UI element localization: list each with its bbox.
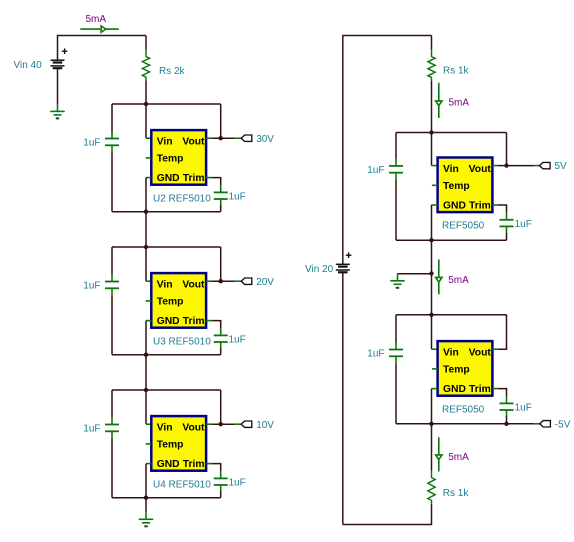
- wire U2 Trim to trim cap: [212, 178, 221, 186]
- capacitor 1uF input of U2: [105, 139, 119, 146]
- wire Rs 1k to stage A top: [431, 81, 433, 133]
- svg-text:1uF: 1uF: [83, 281, 100, 292]
- pin stub Vout of U4: [206, 423, 212, 425]
- junction U3 stage bottom: [144, 353, 148, 357]
- svg-text:Vin: Vin: [157, 280, 173, 291]
- ground mid (Vin20 return): [390, 274, 404, 288]
- output flag 5V: [540, 162, 551, 168]
- wire stage A bottom to stage B top: [431, 240, 433, 315]
- svg-text:Trim: Trim: [469, 200, 491, 211]
- wire REF5050b GND to stage bottom: [431, 389, 433, 424]
- capacitor 1uF input of REF5050b: [389, 350, 403, 357]
- wire U4 stage top (Vin node): [112, 389, 221, 391]
- svg-text:Vin: Vin: [443, 164, 459, 175]
- wire REF5050a Vout to corner: [498, 165, 507, 167]
- svg-text:GND: GND: [157, 173, 180, 184]
- input cap lead upper REF5050a: [395, 159, 397, 166]
- trim cap lead upper U3: [220, 328, 222, 335]
- capacitor lead upper C U2: [111, 132, 113, 139]
- pin stub GND of REF5050b: [432, 388, 438, 390]
- junction U2 stage top: [144, 102, 148, 106]
- wire rail to Rs 1k top: [431, 36, 433, 50]
- pin stub Vin of U2: [146, 137, 151, 139]
- wire REF5050b stage top: [396, 314, 507, 316]
- svg-text:Temp: Temp: [443, 181, 470, 192]
- svg-text:20V: 20V: [256, 277, 274, 288]
- trim cap lead lower REF5050b: [506, 410, 508, 416]
- svg-text:GND: GND: [443, 200, 466, 211]
- trim cap lead lower U2: [220, 199, 222, 205]
- capacitor 1uF trim of REF5050b: [500, 403, 514, 410]
- flag lead 20V: [234, 280, 241, 282]
- svg-text:Trim: Trim: [183, 173, 205, 184]
- trim cap lead upper U2: [220, 185, 222, 192]
- svg-text:1uF: 1uF: [367, 349, 384, 360]
- wire REF5050a stage bottom: [396, 239, 507, 241]
- wire U4 trim cap to stage bottom: [220, 491, 222, 498]
- IC REF5050a: [438, 158, 493, 213]
- pin stub Temp of REF5050b: [432, 368, 438, 370]
- wire REF5050b bottom to flag: [507, 423, 534, 425]
- polarity plus of Vin 40: [62, 48, 68, 54]
- svg-text:REF5050: REF5050: [442, 404, 485, 415]
- svg-text:1uF: 1uF: [83, 138, 100, 149]
- flag lead 30V: [234, 137, 241, 139]
- svg-text:Rs 2k: Rs 2k: [159, 66, 186, 77]
- wire REF5050a Trim to trim cap: [498, 205, 507, 213]
- wire U2 stage top (Vin node): [112, 103, 221, 105]
- pin stub Vin of REF5050b: [432, 348, 438, 350]
- wire REF5050a Vout to flag: [507, 165, 534, 167]
- svg-text:Vin 20: Vin 20: [305, 264, 334, 275]
- pin stub Temp of REF5050a: [432, 184, 438, 186]
- wire rail to Rs 2k: [145, 36, 147, 50]
- wire U3 main vertical to Vin pin: [145, 247, 147, 281]
- svg-text:1uF: 1uF: [229, 477, 246, 488]
- wire mid ground tap: [397, 273, 431, 275]
- current arrow 5mA (top left): [80, 26, 119, 32]
- junction REF5050a Vout node: [504, 163, 508, 167]
- wire U3 input-cap branch lower: [111, 295, 113, 354]
- wire Vin20 top rail: [343, 36, 432, 265]
- wire U2 Vout to output flag: [212, 137, 234, 139]
- wire REF5050b input-cap branch lower: [395, 363, 397, 424]
- svg-text:1uF: 1uF: [229, 191, 246, 202]
- pin stub GND of REF5050a: [432, 204, 438, 206]
- trim cap lead upper REF5050a: [506, 213, 508, 220]
- current arrow 5mA (middle right): [436, 259, 442, 294]
- voltage source Vin 40: [51, 60, 65, 68]
- voltage source Vin 20: [336, 264, 350, 272]
- capacitor lead lower C U4: [111, 431, 113, 438]
- svg-text:5V: 5V: [555, 161, 568, 172]
- capacitor lead upper C U3: [111, 275, 113, 282]
- svg-text:Temp: Temp: [157, 439, 184, 450]
- ground below Vin 40: [50, 104, 64, 118]
- wire U3 trim cap to stage bottom: [220, 348, 222, 355]
- wire REF5050a top-right vertical: [506, 133, 508, 166]
- svg-text:5mA: 5mA: [448, 452, 469, 463]
- svg-text:10V: 10V: [256, 420, 274, 431]
- flag lead -5V: [534, 423, 540, 425]
- wire U4 bottom to ground: [145, 498, 147, 513]
- svg-text:5mA: 5mA: [448, 275, 469, 286]
- svg-text:Vout: Vout: [182, 137, 205, 148]
- pin stub Trim of REF5050a: [492, 204, 498, 206]
- capacitor 1uF trim of REF5050a: [500, 220, 514, 227]
- capacitor lead lower C U3: [111, 288, 113, 295]
- pin stub Vin of U3: [146, 280, 151, 282]
- wire U3 input-cap branch upper: [111, 247, 113, 275]
- wire Rs 2k to stack top: [145, 80, 147, 104]
- resistor Rs 1k (bottom): [428, 471, 435, 504]
- svg-text:Rs 1k: Rs 1k: [443, 488, 470, 499]
- IC U3 REF5010: [151, 273, 206, 328]
- svg-text:Vin 40: Vin 40: [14, 60, 43, 71]
- wire U2 input-cap branch lower: [111, 152, 113, 211]
- svg-text:U4 REF5010: U4 REF5010: [153, 479, 211, 490]
- svg-text:5mA: 5mA: [86, 14, 107, 25]
- wire U4 input-cap branch lower: [111, 438, 113, 497]
- wire U3 stage bottom (GND node): [112, 354, 221, 356]
- svg-text:U2 REF5010: U2 REF5010: [153, 193, 211, 204]
- trim cap lead lower REF5050a: [506, 226, 508, 232]
- trim cap lead lower U4: [220, 485, 222, 491]
- wire REF5050a input-cap branch upper: [395, 133, 397, 159]
- current arrow 5mA (lower right): [436, 437, 442, 471]
- wire U3 stage top (Vin node): [112, 246, 221, 248]
- svg-text:REF5050: REF5050: [442, 221, 485, 232]
- svg-text:1uF: 1uF: [229, 334, 246, 345]
- svg-text:GND: GND: [157, 459, 180, 470]
- wire U4 Vout to output flag: [212, 423, 234, 425]
- IC U2 REF5010: [151, 130, 206, 185]
- wire U2 stage bottom (GND node): [112, 211, 221, 213]
- svg-text:1uF: 1uF: [515, 402, 532, 413]
- pin stub GND of U3: [146, 320, 151, 322]
- wire U4 stage bottom (GND node): [112, 497, 221, 499]
- wire U3 top-right vertical (Vin to Vout tie): [220, 247, 222, 281]
- pin stub Vout of U2: [206, 137, 212, 139]
- wire REF5050b main vertical to Vin pin: [431, 315, 433, 349]
- pin stub GND of U2: [146, 177, 151, 179]
- capacitor lead lower C U2: [111, 145, 113, 152]
- capacitor 1uF input of REF5050a: [389, 166, 403, 173]
- output flag 10V: [241, 421, 252, 427]
- svg-text:30V: 30V: [256, 134, 274, 145]
- wire U2 GND to stage bottom: [145, 178, 147, 212]
- junction U2 stage bottom: [144, 210, 148, 214]
- wire U3 GND to stage bottom: [145, 321, 147, 355]
- junction U3 Vout node: [219, 279, 223, 283]
- IC U4 REF5010: [151, 416, 206, 471]
- wire REF5050a GND to stage bottom: [431, 205, 433, 240]
- svg-text:Vout: Vout: [469, 164, 492, 175]
- pin stub Vin of REF5050a: [432, 165, 438, 167]
- wire U3 Trim to trim cap: [212, 321, 221, 329]
- wire REF5050a stage top: [396, 132, 507, 134]
- junction U2 Vout node: [219, 136, 223, 140]
- pin stub Vout of REF5050a: [492, 165, 498, 167]
- wire REF5050b Vout to top-right corner: [498, 315, 507, 349]
- wire U3 bottom to U4 top: [145, 355, 147, 390]
- capacitor 1uF trim of U2: [214, 192, 228, 199]
- junction U4 Vout node: [219, 422, 223, 426]
- svg-text:U3 REF5010: U3 REF5010: [153, 336, 211, 347]
- svg-text:Temp: Temp: [443, 364, 470, 375]
- output flag -5V: [540, 421, 551, 427]
- junction REF5050a stage bottom: [429, 238, 433, 242]
- svg-text:Temp: Temp: [157, 296, 184, 307]
- svg-text:Temp: Temp: [157, 153, 184, 164]
- svg-text:Vout: Vout: [182, 423, 205, 434]
- svg-text:GND: GND: [157, 316, 180, 327]
- pin stub Trim of U3: [206, 320, 212, 322]
- svg-text:1uF: 1uF: [83, 424, 100, 435]
- svg-text:Rs 1k: Rs 1k: [443, 66, 470, 77]
- output flag 30V: [241, 135, 252, 141]
- wire REF5050b Trim to trim cap: [498, 389, 507, 397]
- pin stub Temp of U2: [146, 157, 152, 159]
- pin stub Trim of U4: [206, 463, 212, 465]
- capacitor 1uF trim of U4: [214, 478, 228, 485]
- svg-text:Vout: Vout: [469, 348, 492, 359]
- wire U4 main vertical to Vin pin: [145, 390, 147, 424]
- wire Vin20 bottom to rail: [342, 272, 344, 524]
- pin stub Vout of U3: [206, 280, 212, 282]
- svg-text:Trim: Trim: [183, 316, 205, 327]
- output flag 20V: [241, 278, 252, 284]
- pin stub Vout of REF5050b: [492, 348, 498, 350]
- wire U2 top-right vertical (Vin to Vout tie): [220, 104, 222, 138]
- wire U4 input-cap branch upper: [111, 390, 113, 418]
- input cap lead lower REF5050b: [395, 356, 397, 363]
- current arrow 5mA (upper right): [436, 83, 442, 118]
- wire U2 bottom to U3 top: [145, 212, 147, 247]
- wire U4 top-right vertical (Vin to Vout tie): [220, 390, 222, 424]
- junction U4 stage top: [144, 388, 148, 392]
- wire Rs 1k bottom to rail: [343, 504, 432, 525]
- wire U2 trim cap to stage bottom: [220, 205, 222, 212]
- svg-text:5mA: 5mA: [449, 98, 470, 109]
- pin stub Trim of U2: [206, 177, 212, 179]
- input cap lead upper REF5050b: [395, 343, 397, 350]
- pin stub Temp of U4: [146, 443, 152, 445]
- ground below stack: [139, 512, 153, 526]
- wire REF5050a trim cap to stage bottom: [506, 232, 508, 240]
- capacitor 1uF trim of U3: [214, 335, 228, 342]
- svg-text:-5V: -5V: [555, 419, 571, 430]
- svg-text:Trim: Trim: [183, 459, 205, 470]
- trim cap lead upper REF5050b: [506, 396, 508, 403]
- wire REF5050b trim cap to stage bottom: [506, 416, 508, 424]
- polarity plus of Vin 20: [346, 252, 352, 258]
- junction U3 stage top: [144, 245, 148, 249]
- svg-text:Vin: Vin: [157, 137, 173, 148]
- flag lead 5V: [534, 165, 540, 167]
- wire U2 input-cap branch upper: [111, 104, 113, 132]
- wire Vin40 top to rail: [58, 36, 147, 61]
- capacitor 1uF input of U4: [105, 425, 119, 432]
- IC REF5050b: [438, 341, 493, 396]
- resistor Rs 2k: [142, 50, 149, 81]
- pin stub GND of U4: [146, 463, 151, 465]
- junction U4 stage bottom: [144, 496, 148, 500]
- junction REF5050b -5V node: [504, 422, 508, 426]
- wire REF5050a input-cap branch lower: [395, 180, 397, 241]
- capacitor 1uF input of U3: [105, 282, 119, 289]
- pin stub Vin of U4: [146, 423, 151, 425]
- svg-text:Vin: Vin: [157, 423, 173, 434]
- pin stub Temp of U3: [146, 300, 152, 302]
- trim cap lead lower U3: [220, 342, 222, 348]
- trim cap lead upper U4: [220, 471, 222, 478]
- pin stub Trim of REF5050b: [492, 388, 498, 390]
- junction REF5050a stage top: [429, 130, 433, 134]
- capacitor lead upper C U4: [111, 418, 113, 425]
- junction REF5050b stage bottom: [429, 422, 433, 426]
- svg-text:GND: GND: [443, 384, 466, 395]
- svg-text:1uF: 1uF: [515, 219, 532, 230]
- svg-text:1uF: 1uF: [367, 165, 384, 176]
- wire U3 Vout to output flag: [212, 280, 234, 282]
- wire REF5050b stage bottom: [396, 423, 507, 425]
- wire U4 Trim to trim cap: [212, 464, 221, 472]
- input cap lead lower REF5050a: [395, 173, 397, 180]
- wire REF5050a main vertical to Vin pin: [431, 133, 433, 166]
- wire Vin40 bottom to ground: [57, 68, 59, 104]
- junction mid ground tap: [429, 271, 433, 275]
- resistor Rs 1k (top): [428, 50, 435, 81]
- wire U4 GND to stage bottom: [145, 464, 147, 498]
- svg-text:Vout: Vout: [182, 280, 205, 291]
- wire U2 main vertical to Vin pin: [145, 104, 147, 138]
- svg-text:Trim: Trim: [469, 384, 491, 395]
- flag lead 10V: [234, 423, 241, 425]
- junction REF5050b stage top: [429, 313, 433, 317]
- wire stage B bottom down: [431, 424, 433, 471]
- svg-text:Vin: Vin: [443, 348, 459, 359]
- wire REF5050b input-cap branch upper: [395, 315, 397, 343]
